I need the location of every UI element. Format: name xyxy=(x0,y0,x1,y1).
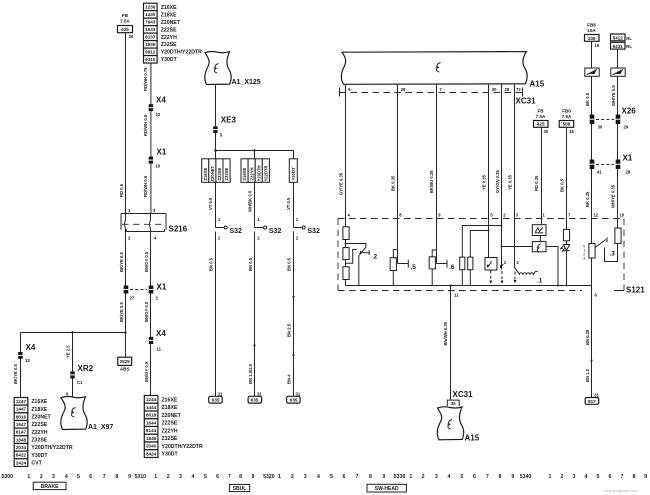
svg-text:RD 0.35: RD 0.35 xyxy=(534,175,539,191)
svg-text:1: 1 xyxy=(27,474,30,480)
resistor + LED (pin7) xyxy=(560,219,570,286)
svg-text:9: 9 xyxy=(644,474,647,480)
node 2525 ABS xyxy=(118,333,132,372)
svg-text:236: 236 xyxy=(588,36,596,41)
svg-text:5: 5 xyxy=(460,474,463,480)
svg-text:7: 7 xyxy=(355,474,358,480)
svg-text:2: 2 xyxy=(374,254,378,261)
svg-text:9: 9 xyxy=(128,474,131,480)
connector X4 pin 11 xyxy=(149,329,167,352)
rheostat + switch .3 (pin12) xyxy=(583,219,615,286)
svg-text:GY/YE 0.35: GY/YE 0.35 xyxy=(338,172,343,195)
svg-text:Y20DTH: Y20DTH xyxy=(256,165,261,181)
svg-text:Z32SE: Z32SE xyxy=(224,167,229,180)
svg-text:Z22YH: Z22YH xyxy=(249,167,254,180)
gauge display (pin1) xyxy=(532,219,546,252)
svg-text:6: 6 xyxy=(343,474,346,480)
svg-text:FB: FB xyxy=(122,13,129,18)
relay contact + coil .1 (pin3) xyxy=(514,219,543,285)
svg-text:XC31: XC31 xyxy=(516,97,537,106)
track label BRAKE xyxy=(33,482,66,490)
fuse FB 7.5A (425) right xyxy=(534,109,549,134)
svg-text:2: 2 xyxy=(291,474,294,480)
svg-text:8: 8 xyxy=(633,474,636,480)
ground 817 xyxy=(585,392,599,404)
svg-text:3: 3 xyxy=(583,257,585,261)
ground 635 (1) xyxy=(209,391,223,403)
svg-text:5412: 5412 xyxy=(613,36,624,41)
watermark xyxy=(604,488,638,493)
svg-text:12: 12 xyxy=(594,213,599,218)
indicator element 2 (pin5) xyxy=(485,219,497,285)
svg-text:RL: RL xyxy=(626,36,632,41)
svg-text:29: 29 xyxy=(624,125,629,130)
svg-text:BN 0.35: BN 0.35 xyxy=(585,329,590,345)
svg-text:635: 635 xyxy=(212,398,220,403)
wire X1-41 to S121-12 xyxy=(585,169,592,219)
svg-text:A15: A15 xyxy=(465,434,480,443)
track reference flag box 1 xyxy=(585,68,599,76)
svg-text:Z22YH: Z22YH xyxy=(161,35,177,41)
svg-text:A1_X125: A1_X125 xyxy=(232,79,261,86)
svg-text:6: 6 xyxy=(216,474,219,480)
potentiometer wiper .2 xyxy=(345,243,378,286)
svg-text:Z20NET: Z20NET xyxy=(210,165,215,181)
flag A1_X125 xyxy=(205,52,261,86)
svg-text:Z22YH: Z22YH xyxy=(162,428,178,434)
svg-text:BK 0.5: BK 0.5 xyxy=(559,178,564,192)
svg-text:1647: 1647 xyxy=(16,422,27,427)
wire fuse509 to S121-7 xyxy=(559,127,566,218)
wire branch2 drop xyxy=(254,151,256,159)
svg-text:1848: 1848 xyxy=(146,436,157,441)
svg-text:425: 425 xyxy=(121,27,129,32)
svg-text:29: 29 xyxy=(505,87,510,92)
internal ground bus xyxy=(346,284,592,286)
svg-text:1: 1 xyxy=(549,474,552,480)
connector X1 pins 27 / 2 xyxy=(124,283,167,301)
flag A15 top xyxy=(341,52,544,89)
wire horizontal branch xyxy=(21,331,127,333)
wire fuse236 to track flag xyxy=(591,41,593,68)
svg-text:RD/WH 0.5: RD/WH 0.5 xyxy=(143,175,148,197)
svg-text:VT 0.5: VT 0.5 xyxy=(286,197,291,210)
svg-text:509: 509 xyxy=(563,122,571,127)
wire branch3 drop xyxy=(293,151,295,159)
svg-text:9: 9 xyxy=(511,474,514,480)
svg-text:RD/WH 0.5: RD/WH 0.5 xyxy=(143,114,148,136)
wire branch3 to S32 xyxy=(286,182,299,227)
svg-text:5: 5 xyxy=(77,474,80,480)
switch S32 (1) xyxy=(216,226,243,240)
svg-text:31: 31 xyxy=(594,392,599,397)
svg-text:15: 15 xyxy=(595,43,600,48)
svg-text:30: 30 xyxy=(129,34,134,39)
svg-text:1836: 1836 xyxy=(145,42,156,47)
wire X26-30 to X1-41 xyxy=(591,124,593,160)
variant table top (engine codes) xyxy=(144,3,203,63)
svg-text:BN 1.0: BN 1.0 xyxy=(585,368,590,382)
svg-text:1430: 1430 xyxy=(145,12,156,17)
svg-text:30: 30 xyxy=(598,125,603,130)
wire XE3 to branch node xyxy=(215,133,217,159)
svg-text:WH/BK 0.5: WH/BK 0.5 xyxy=(248,190,253,212)
svg-text:X1: X1 xyxy=(157,283,167,292)
svg-text:FB8: FB8 xyxy=(587,23,596,28)
svg-text:9431: 9431 xyxy=(613,44,624,49)
svg-text:10A: 10A xyxy=(587,28,596,33)
svg-text:S121: S121 xyxy=(626,286,645,295)
svg-text:Z16XE: Z16XE xyxy=(162,397,178,403)
svg-text:BK/YE 0.5: BK/YE 0.5 xyxy=(13,364,18,384)
svg-text:Z18XE: Z18XE xyxy=(31,407,47,413)
track label SW-HEAD xyxy=(367,484,406,492)
svg-text:11: 11 xyxy=(157,347,162,352)
svg-text:1444: 1444 xyxy=(146,405,157,410)
svg-text:XE3: XE3 xyxy=(221,116,237,125)
svg-text:A1_X97: A1_X97 xyxy=(88,424,113,431)
switch S32 (2) xyxy=(255,226,282,240)
svg-text:1848: 1848 xyxy=(16,437,27,442)
variant boxes branch2 xyxy=(241,159,269,183)
svg-text:5: 5 xyxy=(597,474,600,480)
wire X4-11 to table xyxy=(144,344,151,395)
svg-text:8018: 8018 xyxy=(146,413,157,418)
svg-text:15: 15 xyxy=(569,129,574,134)
resistor + contact .6 xyxy=(429,219,455,286)
svg-text:7: 7 xyxy=(103,474,106,480)
fuse FB8 10A (236) xyxy=(585,23,600,49)
svg-text:.6: .6 xyxy=(449,264,455,271)
svg-text:8016: 8016 xyxy=(16,414,27,419)
wire XC31-72 to S121-3 xyxy=(507,84,514,218)
connector X26 pins 30 / 29 xyxy=(590,107,637,130)
connector X4 pin 22 xyxy=(149,96,167,118)
wire flagbox2 to X26-29 xyxy=(611,76,618,114)
current track ruler xyxy=(2,474,648,480)
wire S32-1 to ground 635 xyxy=(208,232,215,397)
svg-text:8: 8 xyxy=(115,474,118,480)
svg-text:8: 8 xyxy=(239,474,242,480)
module S121 dashed box xyxy=(338,213,645,298)
connector X1 pin 19 xyxy=(149,148,167,169)
ground 635 (2) xyxy=(248,391,262,403)
svg-text:35: 35 xyxy=(451,401,456,406)
svg-text:4: 4 xyxy=(585,474,588,480)
svg-text:Z16XE: Z16XE xyxy=(161,5,177,11)
wire fuse425 to S216 pin1 xyxy=(119,33,125,214)
svg-text:4: 4 xyxy=(448,474,451,480)
svg-text:.3: .3 xyxy=(610,251,616,258)
svg-text:2: 2 xyxy=(561,474,564,480)
svg-text:BK/BU 0.35: BK/BU 0.35 xyxy=(429,170,434,193)
wire XC31-29 to S121-2 xyxy=(495,84,502,218)
wire X1-28 to S121-10 xyxy=(611,169,618,219)
svg-text:Z18XE: Z18XE xyxy=(162,405,178,411)
svg-text:8424: 8424 xyxy=(146,451,157,456)
svg-text:S32: S32 xyxy=(307,228,320,235)
fuse FB0 7.5A (509) xyxy=(559,109,574,134)
svg-text:10: 10 xyxy=(620,213,625,218)
svg-text:7.5A: 7.5A xyxy=(562,114,572,119)
svg-text:X1: X1 xyxy=(157,148,167,157)
svg-text:2034: 2034 xyxy=(16,445,27,450)
svg-text:9310: 9310 xyxy=(145,57,156,62)
svg-text:5310: 5310 xyxy=(135,474,147,480)
svg-text:S32: S32 xyxy=(269,228,282,235)
switch S32 (3) xyxy=(294,226,320,240)
wire S121-6 to ground 817 xyxy=(585,286,593,398)
svg-text:635: 635 xyxy=(290,398,298,403)
svg-text:1247: 1247 xyxy=(16,399,27,404)
svg-text:BN 1.0/2.5: BN 1.0/2.5 xyxy=(248,363,253,384)
svg-text:3: 3 xyxy=(304,474,307,480)
svg-text:4: 4 xyxy=(191,474,194,480)
connector X4 pin 13 xyxy=(18,333,36,364)
svg-text:2: 2 xyxy=(422,474,425,480)
svg-text:Z22SE: Z22SE xyxy=(217,167,222,180)
svg-text:Y30DT: Y30DT xyxy=(291,167,296,180)
svg-text:Y30DT: Y30DT xyxy=(162,452,179,458)
svg-text:9: 9 xyxy=(383,474,386,480)
svg-text:8: 8 xyxy=(369,474,372,480)
svg-text:4: 4 xyxy=(317,474,320,480)
svg-text:Z20NET: Z20NET xyxy=(161,20,181,26)
svg-text:3: 3 xyxy=(179,474,182,480)
svg-text:WH/YE 0.35: WH/YE 0.35 xyxy=(611,184,616,208)
svg-text:SBUL: SBUL xyxy=(233,486,247,492)
svg-text:BRAKE: BRAKE xyxy=(41,484,59,490)
wire S216-2 to X1-27 xyxy=(119,232,125,286)
svg-text:BN/GY 0.5: BN/GY 0.5 xyxy=(144,361,149,382)
svg-text:22: 22 xyxy=(156,112,161,117)
svg-text:9: 9 xyxy=(251,474,254,480)
svg-text:RD/WH 0.75: RD/WH 0.75 xyxy=(143,67,148,91)
fuse F8 7.5A (425) xyxy=(118,13,134,39)
svg-text:BK/YE 0.5: BK/YE 0.5 xyxy=(119,252,124,272)
connector XE3 pin 5 xyxy=(213,116,236,138)
wire fuse425 to S121-1 xyxy=(534,127,542,218)
svg-text:Y30DT: Y30DT xyxy=(161,57,178,63)
wire X1-2 down xyxy=(144,294,151,337)
wire S216-4 to X1-2 xyxy=(144,232,150,286)
svg-text:28: 28 xyxy=(626,170,631,175)
svg-text:7.5A: 7.5A xyxy=(120,19,130,24)
wire X26-29 to X1-28 xyxy=(617,124,619,160)
wire X4 to X1 xyxy=(143,111,151,156)
wire XC31-7 to S121-9 xyxy=(429,84,436,218)
svg-text:ABS: ABS xyxy=(120,366,130,371)
svg-text:2424: 2424 xyxy=(16,460,27,465)
wire A1_X125 to XE3 xyxy=(215,85,217,127)
svg-text:5320: 5320 xyxy=(263,474,275,480)
track reference flag box 2 xyxy=(611,68,625,76)
wire branch1 to S32 xyxy=(208,182,221,227)
svg-text:BN/GY 0.5: BN/GY 0.5 xyxy=(144,251,149,272)
svg-text:Z22SE: Z22SE xyxy=(162,421,178,427)
wire XR2 to A1_X97 xyxy=(66,379,73,398)
svg-text:YE 2.5: YE 2.5 xyxy=(65,345,70,358)
svg-text:31: 31 xyxy=(257,391,262,396)
svg-text:5: 5 xyxy=(204,474,207,480)
svg-text:GY/GN 0.35: GY/GN 0.35 xyxy=(495,170,500,193)
svg-text:1: 1 xyxy=(278,474,281,480)
svg-text:A15: A15 xyxy=(530,80,545,89)
svg-text:SW-HEAD: SW-HEAD xyxy=(375,486,399,492)
svg-text:FB0: FB0 xyxy=(562,109,571,114)
wire S32-2 to ground 635 xyxy=(248,232,256,397)
svg-text:425: 425 xyxy=(537,122,545,127)
svg-text:5: 5 xyxy=(330,474,333,480)
wire X1-27 down xyxy=(119,294,126,333)
svg-text:BN 2.5: BN 2.5 xyxy=(286,323,291,337)
svg-text:3: 3 xyxy=(435,474,438,480)
svg-text:BN 0.5: BN 0.5 xyxy=(248,257,253,271)
svg-text:31: 31 xyxy=(296,391,301,396)
switch jog to pin10 resistor xyxy=(605,243,618,261)
svg-text:2525: 2525 xyxy=(120,359,131,364)
connector XR2 pin C1 xyxy=(70,364,93,385)
svg-text:72: 72 xyxy=(516,87,521,92)
svg-text:.1: .1 xyxy=(537,278,543,285)
svg-text:Y30DT: Y30DT xyxy=(31,453,48,459)
svg-text:8144: 8144 xyxy=(146,428,157,433)
connector XC31 row xyxy=(340,87,537,106)
svg-text:BK 0.35: BK 0.35 xyxy=(390,175,395,191)
svg-text:Y20DTH/Y22DTR: Y20DTH/Y22DTR xyxy=(162,444,203,450)
wire gauge links xyxy=(501,246,559,286)
svg-text:8147: 8147 xyxy=(16,430,27,435)
svg-text:6: 6 xyxy=(609,474,612,480)
svg-text:X4: X4 xyxy=(156,329,166,338)
wire 5412 to track flag xyxy=(617,49,619,68)
svg-text:Z16XE: Z16XE xyxy=(203,167,208,180)
svg-text:8137: 8137 xyxy=(145,35,156,40)
wire X4-13 to table xyxy=(13,359,20,398)
svg-text:7943: 7943 xyxy=(145,20,156,25)
svg-text:.5: .5 xyxy=(411,264,417,271)
svg-text:XR2: XR2 xyxy=(78,364,94,373)
svg-text:1244: 1244 xyxy=(146,397,157,402)
svg-text:2: 2 xyxy=(40,474,43,480)
svg-text:2: 2 xyxy=(167,474,170,480)
wire X1 to S216 pin3 xyxy=(143,164,151,214)
svg-text:6: 6 xyxy=(89,474,92,480)
svg-text:6: 6 xyxy=(473,474,476,480)
svg-text:XC31: XC31 xyxy=(453,390,474,399)
svg-text:RD 0.5: RD 0.5 xyxy=(119,183,124,197)
svg-text:RL: RL xyxy=(626,44,632,49)
svg-text:Y20DTH/Y22DTR: Y20DTH/Y22DTR xyxy=(161,50,202,56)
svg-text:9912: 9912 xyxy=(145,50,156,55)
svg-text:5300: 5300 xyxy=(2,474,14,480)
svg-text:Z18XE: Z18XE xyxy=(161,12,177,18)
svg-text:1644: 1644 xyxy=(146,420,157,425)
svg-text:Z16XE: Z16XE xyxy=(31,399,47,405)
resistor + contact .5 xyxy=(390,219,416,286)
svg-text:Z22YH: Z22YH xyxy=(31,430,47,436)
indicator element 1 (pin2) xyxy=(500,219,507,285)
wire S32-3 to ground 635 xyxy=(286,232,294,397)
svg-text:7.5A: 7.5A xyxy=(536,114,546,119)
svg-text:BN 0.5: BN 0.5 xyxy=(286,257,291,271)
svg-text:WH/YE 0.5: WH/YE 0.5 xyxy=(611,85,616,106)
flag A1_X97 xyxy=(61,397,114,431)
svg-text:Z18XE: Z18XE xyxy=(242,167,247,180)
wire XC31-28 to S121-8 xyxy=(390,84,397,218)
svg-text:Z22SE: Z22SE xyxy=(161,27,177,33)
svg-text:BN/WH 0.35: BN/WH 0.35 xyxy=(443,321,448,345)
svg-text:FB: FB xyxy=(537,109,544,114)
svg-text:1: 1 xyxy=(154,474,157,480)
svg-text:41: 41 xyxy=(597,170,602,175)
variant boxes branch1 xyxy=(202,159,230,183)
svg-text:C1: C1 xyxy=(77,380,83,385)
wire flagbox1 to X26-30 xyxy=(585,76,592,114)
svg-text:7: 7 xyxy=(486,474,489,480)
svg-text:635: 635 xyxy=(251,398,259,403)
svg-text:817: 817 xyxy=(588,399,596,404)
resistor pin10 xyxy=(615,219,621,244)
svg-text:31: 31 xyxy=(218,391,223,396)
svg-text:1633: 1633 xyxy=(145,27,156,32)
svg-text:7: 7 xyxy=(228,474,231,480)
variant table bottom-mid xyxy=(144,396,203,458)
svg-text:1447: 1447 xyxy=(16,407,27,412)
svg-text:1: 1 xyxy=(409,474,412,480)
connector XC31 pin 35 xyxy=(447,390,473,406)
variant table bottom-left xyxy=(14,398,73,467)
svg-text:CVT: CVT xyxy=(31,461,42,467)
svg-text:YE 0.35: YE 0.35 xyxy=(482,174,487,190)
svg-text:28: 28 xyxy=(401,87,406,92)
svg-text:11: 11 xyxy=(454,293,459,298)
svg-text:Z32SE: Z32SE xyxy=(162,436,178,442)
svg-text:Z22SE: Z22SE xyxy=(31,422,47,428)
track label SBUL xyxy=(229,484,249,492)
splice S216 xyxy=(121,208,188,240)
svg-text:BK/YE 0.5: BK/YE 0.5 xyxy=(119,302,124,322)
wire S121-11 to XC31-35 xyxy=(443,286,450,401)
svg-text:8422: 8422 xyxy=(16,453,27,458)
svg-text:Y22DTR: Y22DTR xyxy=(264,165,269,181)
svg-text:30: 30 xyxy=(544,129,549,134)
svg-text:BN/GY 0.5: BN/GY 0.5 xyxy=(144,301,149,322)
svg-text:X4: X4 xyxy=(156,96,166,105)
wire XC31-30 to S121-5 xyxy=(482,84,489,218)
svg-text:4: 4 xyxy=(65,474,68,480)
svg-text:3: 3 xyxy=(573,474,576,480)
wire XC31-9 to S121-4 xyxy=(338,84,345,218)
node branch junction xyxy=(214,149,293,152)
wire branch to XR2 xyxy=(65,333,72,372)
svg-text:5340: 5340 xyxy=(520,474,532,480)
wire table to X4 xyxy=(143,63,151,104)
svg-text:YE 0.35: YE 0.35 xyxy=(507,174,512,190)
svg-text:7: 7 xyxy=(621,474,624,480)
svg-text:30: 30 xyxy=(492,87,497,92)
svg-text:Z20NET: Z20NET xyxy=(162,413,182,419)
svg-text:BK 0.5: BK 0.5 xyxy=(585,92,590,106)
svg-text:VT 0.5: VT 0.5 xyxy=(208,197,213,210)
ground 635 (3) xyxy=(287,391,301,403)
svg-text:S216: S216 xyxy=(169,225,188,234)
svg-text:Y20DTH/Y22DTR: Y20DTH/Y22DTR xyxy=(31,445,72,451)
svg-text:8: 8 xyxy=(499,474,502,480)
nodes 5412 RL / 9431 RL xyxy=(611,34,633,49)
svg-text:BK 0.35: BK 0.35 xyxy=(585,191,590,207)
resistor pair xyxy=(460,225,503,286)
